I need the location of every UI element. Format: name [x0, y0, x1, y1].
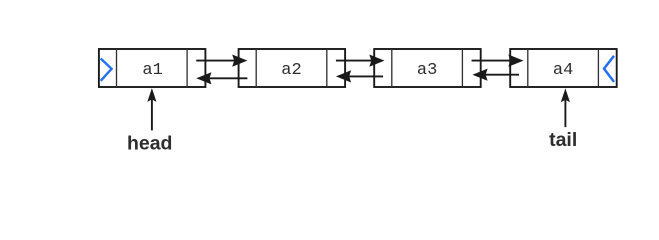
next arrow a2 to a3: [336, 55, 385, 67]
next arrow a1 to a2: [196, 55, 247, 67]
svg-text:a3: a3: [417, 61, 437, 80]
svg-text:tail: tail: [549, 129, 577, 151]
node a1 box: [99, 49, 205, 87]
prev arrow a2 to a1: [196, 72, 247, 84]
node a4 box: [510, 49, 617, 87]
svg-text:a2: a2: [281, 61, 301, 80]
node a3 box: [374, 49, 481, 87]
node a4 null-next chevron: [604, 56, 614, 82]
prev arrow a3 to a2: [336, 70, 383, 82]
node a1 null-prev chevron: [101, 59, 112, 81]
prev arrow a4 to a3: [472, 69, 519, 81]
svg-text:head: head: [127, 132, 173, 154]
node a2 box: [239, 49, 346, 87]
tail pointer arrow: [561, 88, 570, 127]
svg-text:a1: a1: [142, 61, 162, 80]
head pointer arrow: [147, 88, 156, 130]
svg-text:a4: a4: [553, 61, 573, 80]
next arrow a3 to a4: [472, 55, 524, 67]
